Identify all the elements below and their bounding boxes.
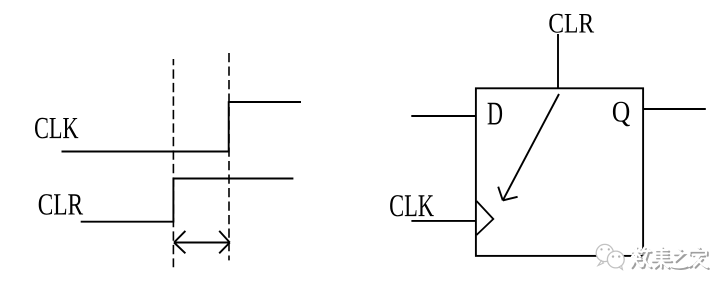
clock edge triangle [477, 201, 494, 235]
dashed guide line t1 [172, 59, 174, 267]
label CLK (left waveform) [35, 118, 78, 139]
label CLR (left waveform) [39, 194, 83, 215]
arrow from CLR line to clock triangle [498, 94, 559, 200]
wire: CLR low level [81, 221, 174, 223]
dashed guide line t2 [228, 53, 230, 260]
wire: CLR high level [173, 178, 293, 180]
label CLR (clear input, top of flip-flop) [549, 14, 594, 33]
label CLK (clock input) [390, 195, 434, 216]
wire: Q output [643, 108, 706, 110]
pin label D [488, 103, 503, 125]
watermark logo (chat bubbles) [596, 244, 624, 269]
wire: CLK high level [229, 101, 301, 103]
wire: CLK low level [62, 151, 229, 153]
wire: CLK rising edge [228, 101, 230, 152]
watermark text 数集之家 (drawn strokes, shadow + white fill) [631, 246, 709, 269]
flip-flop U1 body [476, 88, 643, 256]
pin label Q [613, 102, 630, 127]
wire: CLK input [411, 220, 475, 222]
wire: D input [411, 115, 476, 117]
delay measurement double arrow [174, 231, 230, 253]
wire: CLR input [557, 34, 559, 88]
wire: CLR rising edge [172, 178, 174, 223]
